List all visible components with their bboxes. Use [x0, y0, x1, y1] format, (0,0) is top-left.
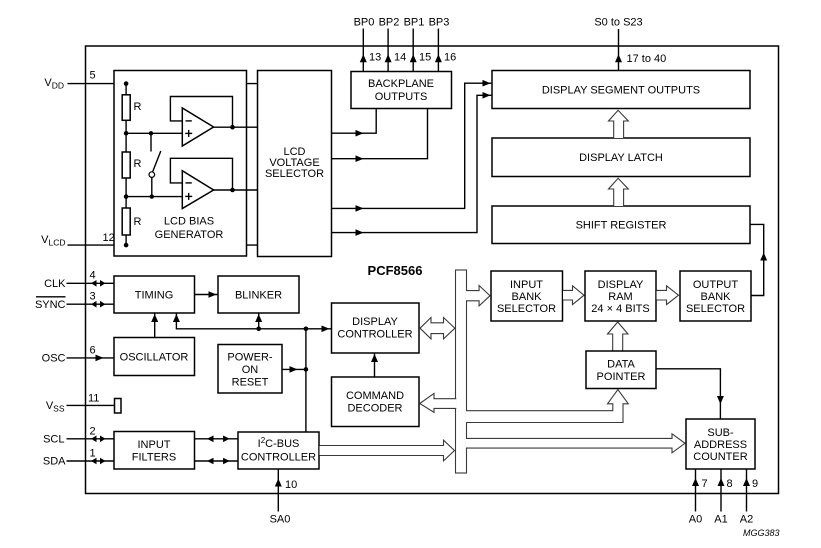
open arrow bus to DATA POINTER — [466, 390, 628, 423]
block POWER-ON RESET — [218, 345, 282, 394]
block COMMAND DECODER — [332, 377, 420, 427]
svg-text:SELECTOR: SELECTOR — [686, 303, 745, 315]
svg-text:POINTER: POINTER — [597, 371, 646, 383]
svg-text:LCD BIAS: LCD BIAS — [164, 216, 214, 228]
wire OUTPUT BANK SELECTOR to SHIFT REGISTER — [750, 224, 764, 295]
block BLINKER — [218, 276, 299, 313]
svg-text:CLK: CLK — [44, 278, 66, 290]
switch S1 — [149, 131, 161, 199]
svg-text:12: 12 — [103, 232, 115, 244]
wire control trunk to DISPLAY CONTROLLER — [176, 313, 331, 329]
svg-text:9: 9 — [752, 478, 758, 490]
block INPUT BANK SELECTOR — [491, 271, 563, 321]
wire resistor chain — [125, 84, 127, 95]
block OUTPUT BANK SELECTOR — [680, 271, 751, 321]
block SUB-ADDRESS COUNTER — [686, 419, 755, 469]
node CLK — [44, 270, 114, 291]
wire — [125, 133, 127, 152]
block DISPLAY RAM — [585, 271, 656, 321]
svg-text:11: 11 — [88, 393, 99, 405]
wire selector out 2 to backplane outputs — [332, 109, 428, 159]
node SYNC (active low) — [35, 291, 114, 312]
wire A1 — [720, 469, 722, 512]
svg-text:6: 6 — [90, 345, 96, 357]
svg-text:A2: A2 — [740, 514, 753, 526]
svg-text:OUTPUTS: OUTPUTS — [375, 91, 428, 103]
wire SDA to INPUT FILTERS — [67, 460, 115, 462]
node BP1 — [404, 17, 432, 72]
node SCL — [43, 426, 114, 446]
wire I2C controller to trunk — [305, 329, 307, 432]
node BP0 — [354, 17, 382, 72]
svg-text:DECODER: DECODER — [347, 403, 402, 415]
svg-text:SCL: SCL — [43, 434, 64, 446]
wire BP1 — [412, 29, 414, 72]
node SA0 — [270, 469, 298, 526]
wire trunk branch to BLINKER — [258, 313, 260, 329]
svg-text:TIMING: TIMING — [135, 290, 174, 302]
wire — [125, 120, 127, 133]
wire feedback loop U2 — [170, 158, 232, 190]
node A0 — [689, 469, 708, 526]
svg-text:R: R — [134, 101, 142, 113]
wire — [125, 197, 127, 208]
block OSCILLATOR — [114, 338, 195, 376]
open arrow bus to SUB-ADDRESS COUNTER — [466, 434, 685, 453]
node junction dots on chain — [124, 81, 129, 86]
wire OSC to OSCILLATOR — [67, 357, 115, 359]
svg-text:CONTROLLER: CONTROLLER — [241, 452, 316, 464]
wire INPUT FILTERS to I2C-BUS CONTROLLER (SCL) — [195, 438, 239, 440]
svg-text:ON: ON — [242, 364, 259, 376]
node VDD — [44, 70, 257, 91]
svg-text:COMMAND: COMMAND — [346, 390, 404, 402]
wire U2 output to LCD voltage selector — [214, 189, 258, 191]
open arrow SHIFT REGISTER to DISPLAY LATCH — [609, 178, 629, 206]
LCD bias generator enclosure — [114, 71, 247, 257]
svg-text:3: 3 — [90, 291, 96, 303]
open arrow I2C-BUS CONTROLLER to bus — [320, 440, 455, 461]
svg-text:10: 10 — [285, 479, 297, 491]
svg-text:RESET: RESET — [232, 377, 269, 389]
svg-text:8: 8 — [727, 478, 733, 490]
svg-text:FILTERS: FILTERS — [132, 452, 176, 464]
svg-text:14: 14 — [394, 52, 406, 64]
svg-text:A1: A1 — [714, 514, 727, 526]
wire BP0 — [362, 29, 364, 72]
chip outer border — [86, 46, 779, 494]
wire A0 — [695, 469, 697, 512]
svg-text:13: 13 — [369, 52, 381, 64]
svg-text:24 × 4 BITS: 24 × 4 BITS — [591, 303, 649, 315]
node OSC — [42, 345, 114, 365]
svg-text:SELECTOR: SELECTOR — [497, 303, 556, 315]
resistor R (top) — [122, 95, 130, 121]
svg-text:RAM: RAM — [608, 291, 632, 303]
wire VSS to terminal — [67, 404, 115, 406]
svg-text:R: R — [134, 158, 142, 170]
svg-text:BANK: BANK — [512, 291, 543, 303]
svg-text:COUNTER: COUNTER — [693, 451, 747, 463]
op-amp U1 (upper) — [170, 97, 257, 147]
wire COMMAND DECODER to DISPLAY CONTROLLER — [374, 353, 376, 377]
svg-text:4: 4 — [90, 270, 96, 282]
svg-text:BANK: BANK — [701, 291, 732, 303]
wire BP3 — [437, 29, 439, 72]
node A1 — [714, 469, 732, 526]
block I2C-BUS CONTROLLER — [238, 432, 319, 469]
svg-text:DISPLAY LATCH: DISPLAY LATCH — [579, 152, 663, 164]
svg-text:BP1: BP1 — [404, 17, 425, 29]
terminal stub VSS — [115, 399, 122, 414]
svg-text:OSCILLATOR: OSCILLATOR — [120, 352, 189, 364]
svg-text:7: 7 — [702, 478, 708, 490]
block INPUT FILTERS — [114, 432, 195, 470]
open arrow DATA POINTER to DISPLAY RAM — [608, 322, 629, 351]
svg-text:OSC: OSC — [42, 353, 66, 365]
wire SA0 — [277, 469, 279, 512]
wire lower tap to op-amp 2 plus input — [126, 196, 182, 198]
svg-text:A0: A0 — [689, 514, 702, 526]
svg-text:POWER-: POWER- — [227, 352, 273, 364]
svg-text:OUTPUT: OUTPUT — [693, 279, 739, 291]
svg-text:SUB-: SUB- — [707, 427, 734, 439]
svg-text:DISPLAY SEGMENT OUTPUTS: DISPLAY SEGMENT OUTPUTS — [542, 85, 700, 97]
node S0 to S23 — [594, 17, 666, 71]
svg-text:SDA: SDA — [43, 456, 66, 468]
wire feedback loop U1 — [170, 97, 232, 128]
svg-text:R: R — [134, 216, 142, 228]
svg-text:BACKPLANE: BACKPLANE — [368, 78, 434, 90]
wire U1 output to LCD voltage selector — [214, 126, 258, 128]
svg-text:INPUT: INPUT — [510, 279, 543, 291]
svg-text:SHIFT REGISTER: SHIFT REGISTER — [576, 220, 667, 232]
wire DATA POINTER to SUB-ADDRESS COUNTER — [656, 369, 720, 419]
wire S outputs — [618, 29, 620, 71]
svg-text:CONTROLLER: CONTROLLER — [337, 329, 412, 341]
op-amp U2 (lower) — [170, 158, 257, 208]
open arrow bus to COMMAND DECODER — [420, 393, 457, 412]
node A2 — [740, 469, 758, 526]
wire BP2 — [387, 29, 389, 72]
svg-text:BP0: BP0 — [354, 17, 375, 29]
svg-text:5: 5 — [90, 70, 96, 82]
bus trunk (hollow) — [456, 270, 467, 473]
node VLCD — [41, 232, 257, 248]
svg-text:DATA: DATA — [607, 359, 635, 371]
svg-text:17 to 40: 17 to 40 — [627, 53, 667, 65]
open arrow DISPLAY RAM to OUTPUT BANK SELECTOR — [657, 286, 679, 305]
open arrow bus to INPUT BANK SELECTOR — [466, 286, 490, 306]
open arrow INPUT BANK SELECTOR to DISPLAY RAM — [563, 286, 584, 305]
wire VDD to LCD voltage selector — [68, 83, 258, 85]
node BP2 — [379, 17, 407, 72]
wire A2 — [746, 469, 748, 512]
block DISPLAY CONTROLLER — [332, 303, 420, 353]
wire selector out 1 to backplane outputs — [332, 109, 377, 134]
wire TIMING to BLINKER — [195, 294, 219, 296]
svg-text:2: 2 — [90, 426, 96, 438]
wire selector out 3 to display segment outputs — [332, 83, 493, 208]
svg-text:16: 16 — [444, 52, 456, 64]
node BP3 — [429, 17, 457, 72]
resistor R (middle) — [122, 152, 130, 178]
svg-text:1: 1 — [90, 448, 96, 460]
wire SYNC to TIMING — [67, 303, 115, 305]
svg-text:SYNC: SYNC — [35, 299, 66, 311]
block SHIFT REGISTER — [492, 206, 750, 244]
svg-text:PCF8566: PCF8566 — [368, 263, 423, 278]
svg-text:DISPLAY: DISPLAY — [352, 316, 398, 328]
svg-text:SELECTOR: SELECTOR — [265, 168, 324, 180]
svg-text:15: 15 — [419, 52, 431, 64]
wire upper tap to op-amp 1 plus input — [126, 132, 182, 134]
wire SCL to INPUT FILTERS — [67, 438, 115, 440]
open arrow DISPLAY LATCH to DISPLAY SEGMENT OUTPUTS — [609, 110, 629, 138]
wire CLK to TIMING — [67, 282, 115, 284]
svg-text:MGG383: MGG383 — [743, 528, 780, 538]
node VSS — [46, 393, 121, 414]
wire VLCD to LCD voltage selector — [68, 244, 258, 246]
svg-text:DISPLAY: DISPLAY — [598, 279, 644, 291]
block DISPLAY SEGMENT OUTPUTS — [492, 71, 750, 109]
svg-text:ADDRESS: ADDRESS — [694, 439, 747, 451]
svg-text:BLINKER: BLINKER — [235, 290, 282, 302]
wire OSCILLATOR to TIMING — [154, 313, 156, 338]
wire POWER-ON RESET output — [282, 368, 306, 370]
block TIMING — [114, 276, 195, 313]
wire INPUT FILTERS to I2C-BUS CONTROLLER (SDA) — [195, 460, 239, 462]
block LCD VOLTAGE SELECTOR — [258, 71, 332, 257]
resistor R (bottom) — [122, 208, 130, 235]
block DISPLAY LATCH — [492, 138, 750, 177]
svg-text:INPUT: INPUT — [138, 439, 171, 451]
svg-text:S0 to S23: S0 to S23 — [594, 17, 642, 29]
block BACKPLANE OUTPUTS — [351, 72, 452, 109]
svg-text:SA0: SA0 — [270, 514, 291, 526]
open arrow bus to DISPLAY CONTROLLER (bidirectional) — [420, 318, 455, 339]
svg-text:GENERATOR: GENERATOR — [155, 229, 224, 241]
svg-text:BP2: BP2 — [379, 17, 400, 29]
block DATA POINTER — [586, 351, 656, 389]
node SDA — [43, 448, 114, 468]
svg-text:BP3: BP3 — [429, 17, 450, 29]
wire selector out 4 to display segment outputs — [332, 95, 493, 232]
